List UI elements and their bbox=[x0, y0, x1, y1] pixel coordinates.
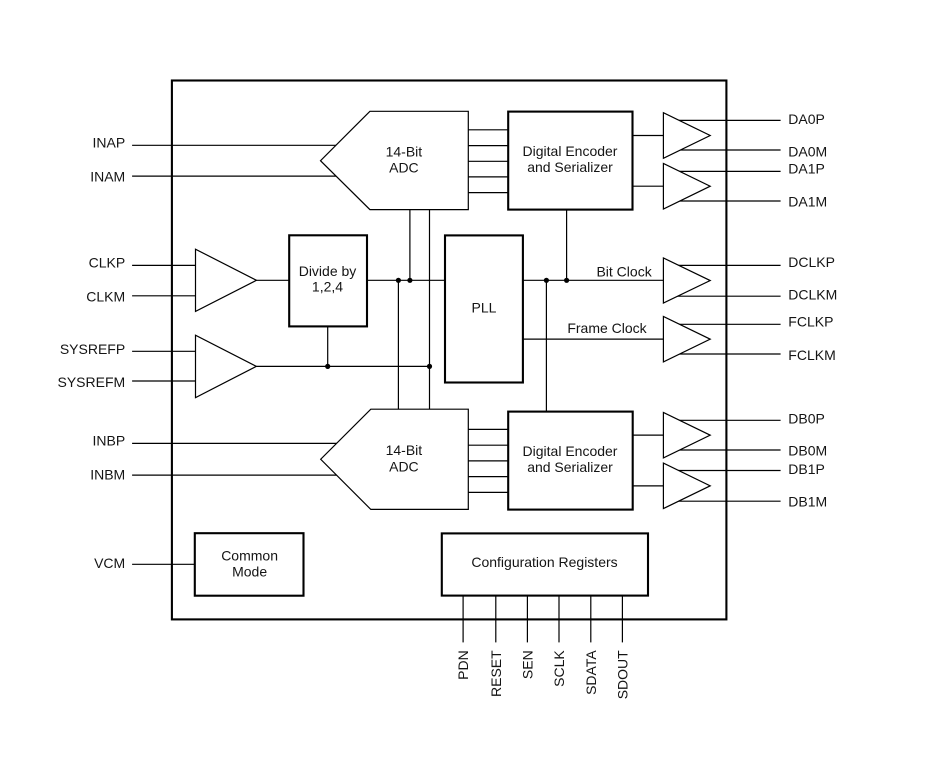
output buffer FCLK bbox=[663, 316, 710, 362]
wire DB0P output bbox=[671, 419, 781, 421]
junction node clock line right bbox=[407, 278, 412, 283]
wire vertical encoder A to bit clock line bbox=[566, 210, 568, 281]
wire DB1M output bbox=[671, 500, 781, 502]
svg-text:Divide by: Divide by bbox=[299, 263, 357, 279]
wire VCM bbox=[132, 563, 195, 565]
wire CLKM bbox=[132, 295, 196, 297]
wire DA1P output bbox=[671, 170, 781, 172]
svg-text:SDATA: SDATA bbox=[583, 650, 599, 695]
wire vertical bit clock line to encoder B bbox=[545, 280, 547, 411]
svg-text:Configuration Registers: Configuration Registers bbox=[471, 554, 617, 570]
digital encoder and serializer block A bbox=[508, 112, 632, 210]
PLL block bbox=[445, 235, 523, 382]
wire bit clock: PLL to DCLK buffer bbox=[523, 279, 664, 281]
wire INBP bbox=[132, 442, 390, 444]
bus ADC B to encoder B line 4 bbox=[468, 476, 508, 478]
wire clock: clock buffer to divider to PLL bbox=[256, 279, 445, 281]
bus ADC A to encoder A line 1 bbox=[468, 129, 508, 131]
ADC block B (14-Bit ADC bottom) bbox=[321, 409, 469, 509]
svg-text:PDN: PDN bbox=[455, 650, 471, 680]
outer chip boundary box bbox=[172, 81, 727, 620]
svg-text:DB1P: DB1P bbox=[788, 461, 825, 477]
bus ADC A to encoder A line 4 bbox=[468, 176, 508, 178]
svg-text:Digital Encoder: Digital Encoder bbox=[523, 443, 618, 459]
wire vertical ADC A to ADC B bbox=[429, 210, 431, 410]
svg-text:Frame Clock: Frame Clock bbox=[567, 320, 647, 336]
svg-text:SEN: SEN bbox=[519, 650, 535, 679]
wire DB0M output bbox=[671, 449, 781, 451]
svg-text:Common: Common bbox=[221, 547, 278, 563]
svg-text:DB0P: DB0P bbox=[788, 410, 825, 426]
pin wire PDN bbox=[462, 596, 464, 643]
svg-text:ADC: ADC bbox=[389, 159, 419, 175]
svg-text:VCM: VCM bbox=[94, 555, 125, 571]
wire DA0M output bbox=[671, 149, 781, 151]
wire DB1P output bbox=[671, 470, 781, 472]
wire CLKP bbox=[132, 264, 196, 266]
wire DA1M output bbox=[671, 200, 781, 202]
svg-text:INAP: INAP bbox=[93, 135, 126, 151]
wire SYSREFP bbox=[132, 350, 196, 352]
wire DA0P output bbox=[671, 119, 781, 121]
svg-text:and Serializer: and Serializer bbox=[527, 459, 613, 475]
svg-text:Mode: Mode bbox=[232, 563, 267, 579]
bus ADC B to encoder B line 2 bbox=[468, 444, 508, 446]
clock input buffer bbox=[196, 249, 257, 311]
svg-text:14-Bit: 14-Bit bbox=[386, 144, 423, 160]
wire encoder B to buffer DB0 bbox=[633, 434, 664, 436]
svg-text:RESET: RESET bbox=[488, 650, 504, 697]
wire sysref: buffer output to node bbox=[256, 365, 429, 367]
svg-text:SDOUT: SDOUT bbox=[614, 650, 630, 699]
wire FCLKM output bbox=[671, 353, 781, 355]
pin wire SCLK bbox=[558, 596, 560, 643]
svg-text:14-Bit: 14-Bit bbox=[386, 442, 423, 458]
junction node bit clock right bbox=[564, 278, 569, 283]
svg-text:Bit Clock: Bit Clock bbox=[596, 264, 652, 280]
svg-text:SYSREFM: SYSREFM bbox=[58, 374, 126, 390]
svg-text:DCLKM: DCLKM bbox=[788, 287, 837, 303]
svg-text:DA1P: DA1P bbox=[788, 161, 825, 177]
wire encoder B to buffer DB1 bbox=[633, 485, 664, 487]
svg-text:SYSREFP: SYSREFP bbox=[60, 341, 125, 357]
svg-text:INBP: INBP bbox=[93, 433, 126, 449]
svg-text:DA0M: DA0M bbox=[788, 144, 827, 160]
wire INAM bbox=[132, 175, 390, 177]
svg-text:DCLKP: DCLKP bbox=[788, 254, 835, 270]
common mode block bbox=[195, 533, 304, 596]
wire FCLKP output bbox=[671, 323, 781, 325]
svg-text:and Serializer: and Serializer bbox=[527, 159, 613, 175]
svg-text:CLKP: CLKP bbox=[89, 255, 126, 271]
pin wire SDATA bbox=[590, 596, 592, 643]
wire vertical ADC A clock drop bbox=[409, 210, 411, 281]
wire DCLKM output bbox=[671, 295, 781, 297]
wire vertical clock line to ADC B bbox=[397, 280, 399, 409]
output buffer DA1 bbox=[663, 163, 710, 209]
bus ADC B to encoder B line 1 bbox=[468, 428, 508, 430]
wire vertical divider to sysref line bbox=[327, 326, 329, 366]
svg-text:DB0M: DB0M bbox=[788, 443, 827, 459]
wire INAP bbox=[132, 144, 390, 146]
svg-text:ADC: ADC bbox=[389, 458, 419, 474]
output buffer DCLK bbox=[663, 258, 710, 303]
svg-text:1,2,4: 1,2,4 bbox=[312, 279, 343, 295]
wire SYSREFM bbox=[132, 380, 196, 382]
wire DCLKP output bbox=[671, 264, 781, 266]
configuration registers block bbox=[442, 533, 648, 595]
bus ADC B to encoder B line 5 bbox=[468, 491, 508, 493]
bus ADC A to encoder A line 2 bbox=[468, 145, 508, 147]
junction node bit clock left bbox=[544, 278, 549, 283]
divide by 1,2,4 block bbox=[289, 235, 367, 326]
digital encoder and serializer block B bbox=[508, 412, 633, 510]
svg-text:FCLKM: FCLKM bbox=[788, 347, 835, 363]
junction node sysref divider bbox=[325, 364, 330, 369]
wire INBM bbox=[132, 474, 390, 476]
svg-text:DB1M: DB1M bbox=[788, 494, 827, 510]
wire frame clock: PLL to FCLK buffer bbox=[523, 338, 664, 340]
junction node clock line left bbox=[396, 278, 401, 283]
svg-text:DA0P: DA0P bbox=[788, 111, 825, 127]
svg-text:PLL: PLL bbox=[472, 300, 497, 316]
output buffer DB1 bbox=[663, 463, 710, 509]
output buffer DA0 bbox=[663, 113, 710, 159]
bus ADC A to encoder A line 3 bbox=[468, 160, 508, 162]
wire encoder A to buffer DA1 bbox=[633, 185, 664, 187]
svg-text:INAM: INAM bbox=[90, 168, 125, 184]
svg-text:CLKM: CLKM bbox=[86, 288, 125, 304]
output buffer DB0 bbox=[663, 412, 710, 458]
pin wire SEN bbox=[526, 596, 528, 643]
junction node sysref end bbox=[427, 364, 432, 369]
svg-text:SCLK: SCLK bbox=[551, 650, 567, 687]
ADC block A (14-Bit ADC top) bbox=[321, 111, 469, 209]
pin wire SDOUT bbox=[621, 596, 623, 643]
svg-text:DA1M: DA1M bbox=[788, 194, 827, 210]
bus ADC A to encoder A line 5 bbox=[468, 192, 508, 194]
sysref input buffer bbox=[196, 335, 257, 397]
bus ADC B to encoder B line 3 bbox=[468, 460, 508, 462]
svg-text:INBM: INBM bbox=[90, 466, 125, 482]
svg-text:FCLKP: FCLKP bbox=[788, 314, 833, 330]
wire encoder A to buffer DA0 bbox=[633, 135, 664, 137]
svg-text:Digital Encoder: Digital Encoder bbox=[523, 143, 618, 159]
pin wire RESET bbox=[495, 596, 497, 643]
